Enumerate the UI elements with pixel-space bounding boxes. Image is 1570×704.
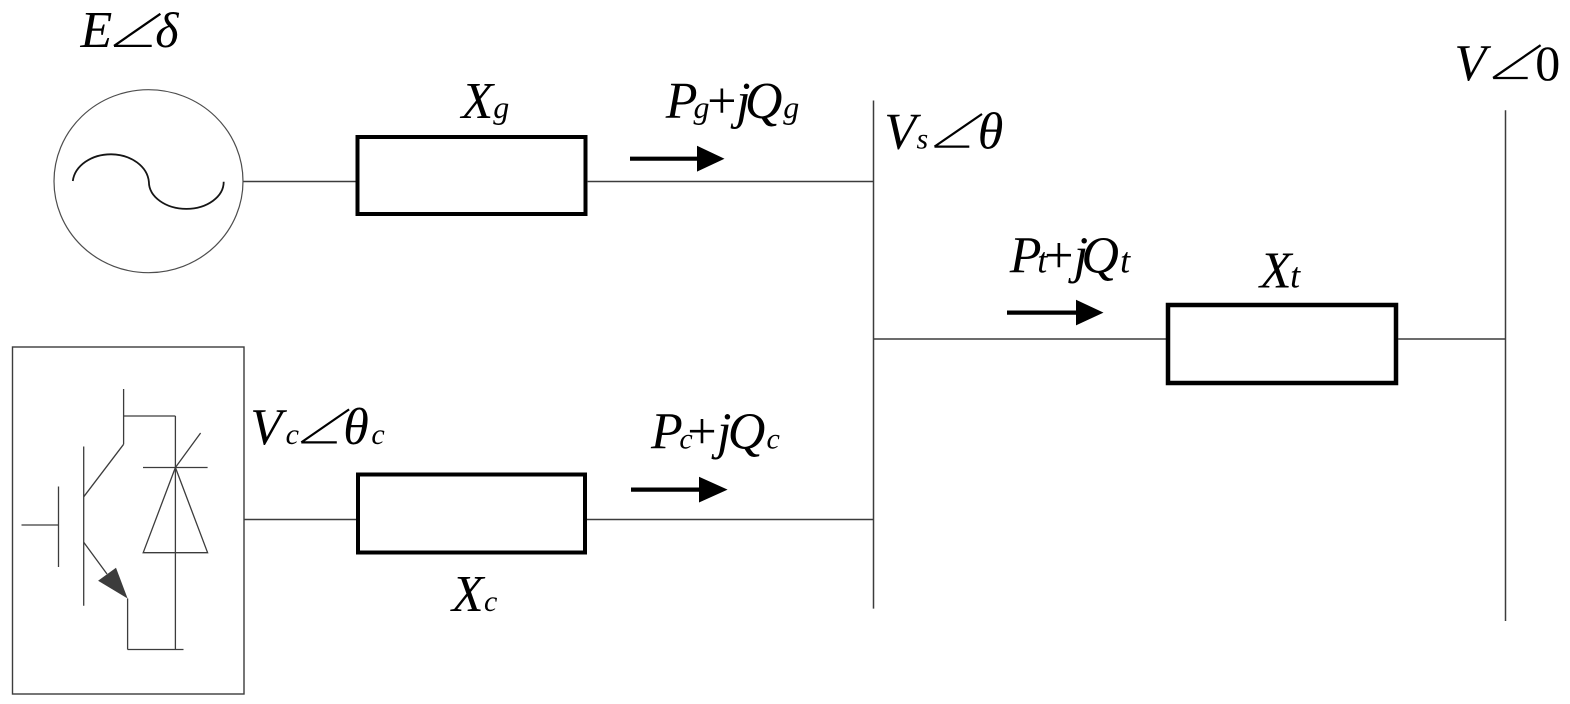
svg-text:E: E xyxy=(80,2,113,59)
svg-text:0: 0 xyxy=(1535,35,1560,91)
svg-text:Pt+jQt: Pt+jQt xyxy=(1009,228,1131,285)
diode D1 center line xyxy=(174,416,176,650)
label V angle 0 xyxy=(1454,35,1560,92)
generator G circle xyxy=(54,90,243,273)
wire Xc to bus S xyxy=(587,519,874,521)
IGBT Q1 emitter slant xyxy=(84,542,107,574)
wire converter to Xc xyxy=(244,519,357,521)
arrow Pc+jQc xyxy=(631,477,728,503)
diode D1 triangle xyxy=(143,468,207,553)
wire generator to Xg xyxy=(244,181,357,183)
svg-text:δ: δ xyxy=(155,2,179,58)
wire Xg to bus S xyxy=(587,181,874,183)
reactance Xt box xyxy=(1168,305,1396,383)
bus S vertical line xyxy=(873,101,875,609)
wire Xt to bus V xyxy=(1398,338,1506,340)
IGBT Q1 collector stub xyxy=(123,389,125,444)
converter VSC box xyxy=(13,347,245,694)
label E angle delta xyxy=(80,2,180,59)
svg-text:Pc+jQc: Pc+jQc xyxy=(650,404,780,461)
IGBT Q1 body bar xyxy=(83,447,85,606)
wire converter top link xyxy=(124,415,176,417)
bus V vertical line xyxy=(1505,110,1507,621)
arrow Pt+jQt xyxy=(1007,300,1104,326)
IGBT Q1 gate lead xyxy=(22,524,59,526)
svg-text:Pg+jQg: Pg+jQg xyxy=(665,73,800,130)
label Vc angle theta-c xyxy=(250,399,385,456)
wire bus S to Xt xyxy=(874,338,1167,340)
IGBT Q1 collector slant xyxy=(84,444,124,497)
IGBT Q1 emitter lead xyxy=(127,599,129,650)
diode D1 diagonal tick xyxy=(175,433,200,468)
svg-text:θ: θ xyxy=(978,104,1004,161)
label Vs angle theta xyxy=(884,104,1003,161)
IGBT Q1 emitter arrowhead xyxy=(98,568,128,599)
reactance Xg box xyxy=(358,137,586,214)
arrow Pg+jQg xyxy=(630,146,725,172)
svg-text:V: V xyxy=(1454,35,1491,92)
wire converter bottom link xyxy=(128,649,184,651)
IGBT Q1 gate bar xyxy=(58,487,60,568)
reactance Xc box xyxy=(358,475,585,553)
generator G sine symbol xyxy=(73,154,224,209)
diode D1 cathode bar xyxy=(143,467,208,469)
